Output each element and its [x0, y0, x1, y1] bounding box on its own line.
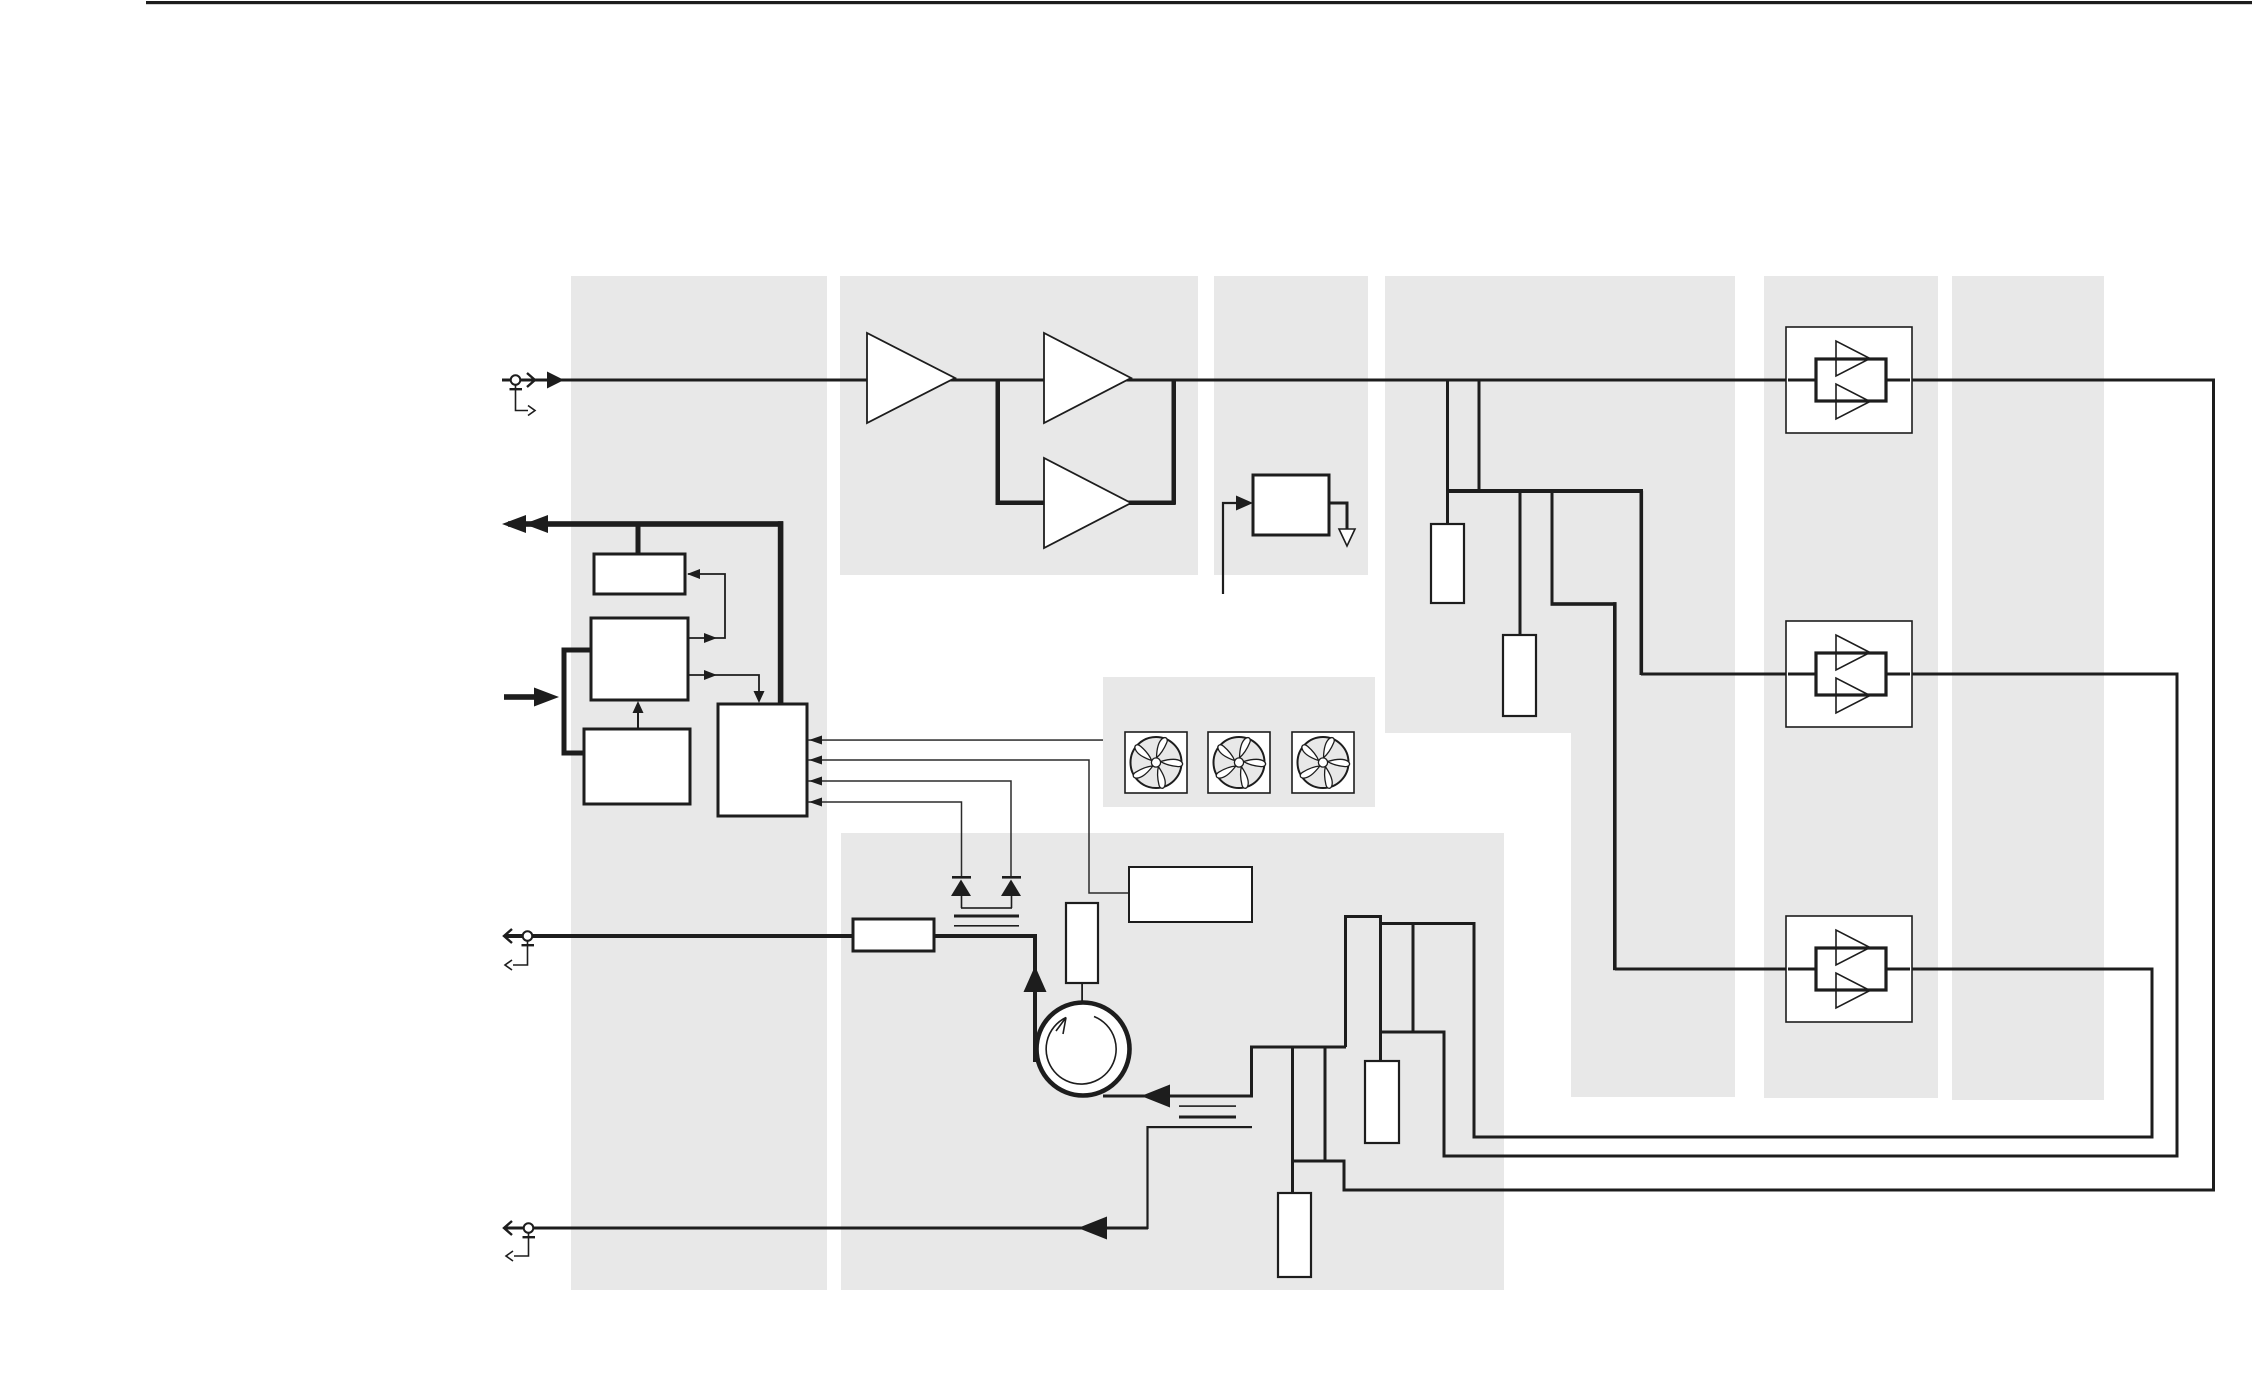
photodiode D2 stub: [1011, 896, 1013, 908]
wire: drop to loop2 line: [1443, 1032, 1446, 1156]
connector J3 tap crossbar: [523, 1236, 536, 1238]
wire: bidirectional comm bus: [508, 521, 783, 527]
wire: loop2 right vertical: [2176, 673, 2179, 1158]
wire: junction horizontal y1047: [1250, 1046, 1346, 1049]
wire: attenuator to circulator: [934, 936, 1035, 1062]
wire: amp parallel lower path: [996, 501, 1176, 506]
wire: B3 up arrow to B2: [637, 710, 639, 729]
wire: input feed L to B2 and B3: [564, 650, 591, 753]
arrowhead on line-out: [1078, 1217, 1107, 1240]
arrowhead sense 2: [809, 756, 822, 765]
amplifier A1: [867, 333, 955, 423]
wire: second header horizontal: [1551, 602, 1617, 606]
wire: drop to second header: [1551, 491, 1554, 605]
module region: pump distribution lower: [1571, 733, 1735, 1097]
connector J2 circle: [523, 931, 533, 941]
fiber mark long: [1148, 1126, 1253, 1128]
wire: return line into circulator: [1103, 1095, 1253, 1098]
wire: pump3 feed vertical: [1613, 602, 1617, 970]
arrowhead into B1: [687, 569, 700, 579]
photodiode D2 cathode bar: [1002, 876, 1021, 879]
module region: pump distribution upper: [1385, 276, 1735, 733]
arrowhead feedback right: [704, 633, 717, 643]
connector J2 tap chevron: [505, 960, 512, 970]
wire: amp parallel split left vertical: [996, 379, 1001, 504]
resistor R3: [1365, 1061, 1399, 1143]
arrowhead B2 output: [704, 670, 717, 680]
wire: photodiode common: [961, 907, 1012, 909]
controller box U1: [718, 704, 807, 816]
sense line 1 from fan tray: [808, 739, 1103, 741]
wire: pump2 line: [1641, 673, 2177, 676]
attenuator pad box: [853, 919, 934, 951]
connector J3 chevron: [504, 1221, 512, 1235]
fan F2: [1208, 732, 1270, 793]
input arrow line: [504, 694, 547, 700]
resistor R1: [1431, 524, 1464, 603]
wire: pump header horizontal: [1446, 489, 1643, 493]
arrowhead sense 4: [809, 798, 822, 807]
connector J3 circle: [524, 1223, 534, 1233]
wire: B2 output to controller: [688, 675, 759, 700]
wire: bus drop to box B1: [636, 524, 641, 555]
connector J1 solid arrowhead: [547, 372, 564, 389]
module region: preamplifier stage: [840, 276, 1198, 575]
wire: line-out to connector J3: [505, 1227, 1148, 1230]
wire: junction horizontal y1161: [1291, 1160, 1346, 1163]
connector J1 line-in circle: [511, 375, 521, 385]
wire: loop1 right vertical: [2212, 379, 2215, 1192]
top rule: [146, 1, 2252, 4]
wire: loop2 bottom horizontal: [1443, 1155, 2179, 1158]
wire: amp parallel rejoin vertical: [1172, 379, 1177, 505]
connector J3 tap chevron: [506, 1251, 513, 1261]
arrowhead into circulator: [1141, 1085, 1170, 1108]
bus arrowhead left inner: [524, 515, 548, 533]
box B3 (memory): [584, 729, 690, 804]
circulator rotation arc: [1046, 1017, 1116, 1085]
connector J1 open chevron: [527, 373, 535, 387]
connector J1 monitor tap elbow: [516, 385, 529, 411]
wire: bridge up left: [1346, 917, 1381, 1062]
wire: bridge up right: [1382, 924, 1474, 1137]
resistor R2: [1503, 635, 1536, 716]
photodiode D2: [1001, 880, 1021, 897]
input arrowhead: [534, 688, 559, 707]
arrowhead B3 to B2: [633, 701, 644, 713]
wire: junction vertical to return line: [1250, 1047, 1253, 1096]
pump laser P3: [1786, 916, 1912, 1022]
ground plate thin: [954, 925, 1019, 927]
laser module box: [1129, 867, 1252, 922]
box B1 (interface): [594, 554, 685, 594]
connector J2 chevron: [504, 929, 512, 943]
fan F3: [1292, 732, 1354, 793]
connector J1 tap crossbar: [510, 388, 523, 390]
wire: B2 to B1 feedback loop: [688, 574, 725, 638]
circulator arc arrowhead: [1056, 1018, 1066, 1035]
resistor R4: [1278, 1193, 1311, 1277]
arrowhead into detector box: [1236, 496, 1253, 511]
module region: circulator / return path block: [841, 833, 1504, 1290]
wire: bus right vertical to controller: [778, 521, 784, 704]
arrowhead down into controller: [754, 691, 765, 703]
arrowhead sense 3: [809, 777, 822, 786]
wire: loop3 bottom horizontal: [1473, 1136, 2154, 1139]
wire: drop to R2: [1519, 491, 1522, 635]
connector J2 tap elbow: [513, 941, 528, 965]
wire: pump feed drop 2: [1478, 379, 1481, 492]
circulator: [1037, 1003, 1130, 1096]
module region: pump laser column E: [1764, 276, 1938, 1098]
wire: pump2 feed vertical: [1640, 491, 1644, 675]
pump laser P1: [1786, 327, 1912, 433]
bus arrowhead left outer: [502, 515, 526, 533]
photodiode D1: [951, 880, 971, 897]
module region: fan tray: [1103, 677, 1375, 807]
connector J2 line-out wire: [505, 934, 853, 938]
wire: isolator stub to circulator: [1081, 983, 1083, 1004]
wire: drop to R4 bottom: [1291, 1047, 1294, 1193]
module region: controller / monitor block: [571, 276, 827, 1290]
detector box: [1253, 475, 1329, 535]
fiber mark thin: [1179, 1105, 1236, 1107]
wire: detector output elbow: [1329, 503, 1347, 530]
fiber mark thick: [1179, 1116, 1236, 1119]
sense line 2 from laser module: [808, 760, 1129, 893]
sense line 4 from photodiode D1: [808, 802, 962, 876]
hollow down triangle: [1339, 529, 1355, 546]
box B2 (processor): [591, 618, 688, 700]
photodiode D1 cathode bar: [952, 876, 971, 879]
wire: junction horizontal y1032: [1381, 1031, 1446, 1034]
amplifier A2: [1044, 333, 1131, 423]
module region: detector stage: [1214, 276, 1368, 575]
wire: loop1 bottom horizontal: [1343, 1189, 2216, 1192]
arrowhead up into TX line: [1024, 966, 1047, 992]
pump laser P2: [1786, 621, 1912, 727]
wire: main optical line y380: [502, 379, 2214, 382]
detector elbow stub: [1223, 503, 1240, 594]
wire: pump feed drop 1: [1446, 379, 1449, 525]
wire: step down to line-out: [1146, 1126, 1148, 1229]
photodiode D1 stub: [961, 896, 963, 908]
wire: drop to y1161: [1324, 1047, 1327, 1162]
wire: pump3 line: [1615, 968, 2152, 971]
wire: hanger to y1032: [1412, 924, 1415, 1034]
arrowhead sense 1: [809, 736, 822, 745]
fan F1: [1125, 732, 1187, 793]
wire: loop3 right vertical: [2151, 968, 2154, 1139]
module region: pump laser column F: [1952, 276, 2104, 1100]
isolator R5 above circulator: [1066, 903, 1098, 983]
ground plate thick: [954, 915, 1019, 918]
connector J3 tap elbow: [514, 1233, 529, 1256]
connector J1 tap chevron: [528, 406, 535, 416]
connector J2 tap crossbar: [522, 944, 535, 946]
sense line 3 from photodiode D2: [808, 781, 1011, 876]
amplifier A3: [1044, 458, 1131, 548]
wire: step to loop1 line: [1343, 1161, 1346, 1191]
